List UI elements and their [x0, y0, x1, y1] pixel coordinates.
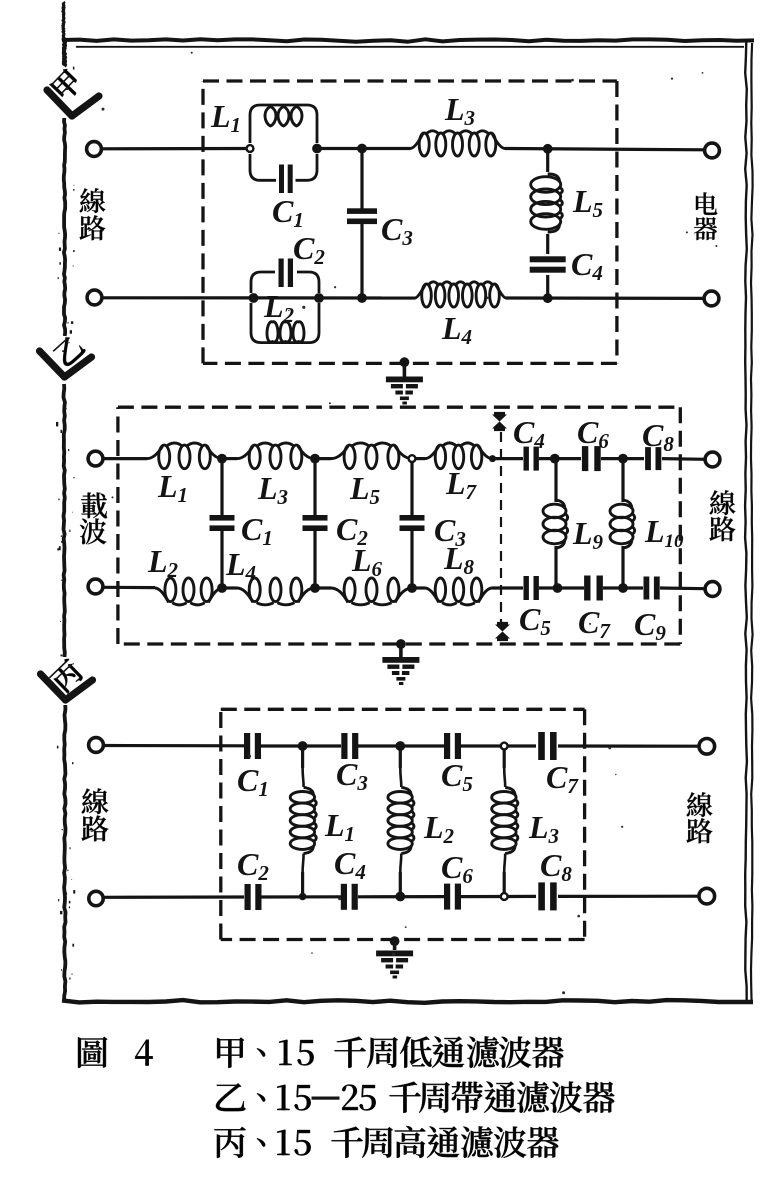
svg-text:C2: C2	[293, 230, 325, 269]
svg-text:C9: C9	[634, 606, 666, 645]
svg-text:C5: C5	[519, 601, 551, 640]
svg-text:C8: C8	[642, 417, 674, 456]
svg-text:L2: L2	[147, 543, 179, 582]
svg-text:C4: C4	[334, 845, 366, 884]
svg-text:C4: C4	[513, 414, 545, 453]
svg-text:L4: L4	[225, 546, 256, 585]
svg-text:C1: C1	[237, 762, 269, 801]
svg-text:C3: C3	[336, 756, 368, 795]
svg-text:C1: C1	[241, 511, 273, 550]
svg-text:C4: C4	[571, 246, 603, 285]
svg-text:L10: L10	[644, 513, 684, 552]
svg-text:L9: L9	[572, 515, 604, 554]
svg-text:L1: L1	[157, 468, 188, 507]
svg-text:L2: L2	[423, 809, 455, 848]
svg-text:C6: C6	[577, 414, 609, 453]
svg-text:L3: L3	[257, 470, 288, 509]
svg-text:C7: C7	[578, 604, 611, 643]
svg-text:L5: L5	[572, 183, 603, 222]
svg-text:L7: L7	[445, 465, 478, 504]
svg-text:C1: C1	[272, 193, 304, 232]
svg-text:C3: C3	[434, 512, 466, 551]
svg-text:C7: C7	[546, 759, 579, 798]
svg-text:C8: C8	[540, 847, 572, 886]
svg-text:C6: C6	[441, 849, 473, 888]
svg-text:L5: L5	[349, 470, 380, 509]
svg-text:C5: C5	[441, 757, 473, 796]
svg-text:C2: C2	[336, 511, 368, 550]
svg-text:C3: C3	[381, 211, 413, 250]
svg-text:L2: L2	[263, 288, 295, 327]
svg-text:L1: L1	[324, 807, 355, 846]
svg-text:L4: L4	[441, 310, 472, 349]
svg-text:L1: L1	[210, 98, 241, 137]
svg-text:L3: L3	[528, 809, 559, 848]
svg-text:C2: C2	[237, 846, 269, 885]
svg-text:L3: L3	[444, 91, 475, 130]
